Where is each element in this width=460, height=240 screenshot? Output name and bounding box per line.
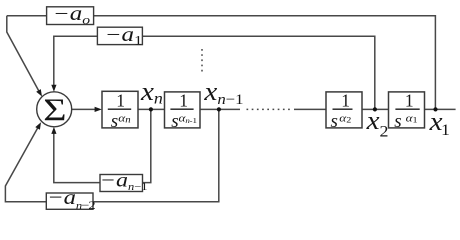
svg-text:s: s (394, 111, 401, 132)
svg-text:1: 1 (341, 90, 350, 110)
svg-text:1: 1 (179, 90, 188, 110)
svg-text:s: s (331, 111, 338, 132)
svg-text:1: 1 (116, 90, 125, 110)
svg-text:Σ: Σ (43, 92, 66, 127)
svg-text:s: s (111, 111, 118, 132)
svg-text:1: 1 (405, 90, 414, 110)
